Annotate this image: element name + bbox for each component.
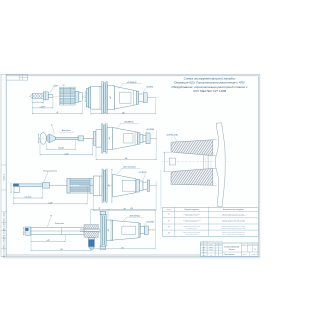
H1 taper verts [136,91,138,104]
svg-text:Т.контр.: Т.контр. [202,251,207,253]
svg-text:Т2: Т2 [168,220,170,222]
left margin cells [2,164,7,166]
H3 centerline [90,185,157,187]
tool T1 drill [30,94,32,99]
cartridge W4 [88,237,94,247]
H3 shank stub [79,184,93,186]
H3 dim [93,209,156,211]
H4 centerline [99,229,156,231]
T2 coupling [78,136,83,141]
T4 dims [31,240,65,242]
H1 body cyl1 [91,86,102,109]
H2 stud [140,134,143,142]
svg-text:1:1: 1:1 [254,249,256,251]
top-left stamp table [6,75,28,81]
svg-text:Лист: Лист [203,244,207,246]
H3 stud [139,181,143,190]
H4 taper [113,221,140,241]
inner frame [6,76,258,255]
T2 centerline [38,137,94,139]
part section lower [171,168,213,185]
svg-text:Дата: Дата [218,244,222,246]
H4 taper verts [139,223,140,237]
svg-text:Т3: Т3 [168,227,170,229]
svg-text:⌀25 (М24х3): ⌀25 (М24х3) [127,81,137,84]
svg-text:Масса: Масса [248,244,252,246]
T1 step block [75,91,79,102]
svg-text:⌀125Н9(+0,04): ⌀125Н9(+0,04) [166,134,178,137]
T1 collet sleeve [60,87,75,105]
H2 taper [113,128,138,150]
svg-text:№ поз.: № поз. [166,209,171,211]
H1 stud [139,94,144,101]
H3 body cyl1 [93,176,102,195]
workpiece section W4 [84,225,98,230]
part left dim [163,151,172,153]
svg-text:⌀80: ⌀80 [108,229,110,232]
H2 ring [93,132,96,146]
svg-text:⌀45 (М42х3): ⌀45 (М42х3) [124,121,134,124]
tool table [163,207,259,236]
part wall crescent [215,123,225,207]
svg-text:ГОСТ 10903-77 исп.2: ГОСТ 10903-77 исп.2 [186,215,199,217]
T4 left vdim [23,227,25,235]
svg-text:150: 150 [60,249,63,251]
holder H1 rings [86,89,88,107]
H3 flange vdim [111,169,113,202]
svg-text:⌀8 (М10): ⌀8 (М10) [146,87,153,89]
svg-text:⌀12 (М16): ⌀12 (М16) [146,129,154,131]
T3 centerline [13,184,95,186]
svg-text:Н.контр.: Н.контр. [202,255,207,257]
tool T4 slot bar [25,227,31,235]
svg-text:Листов 1: Листов 1 [250,254,257,256]
H2 flange [102,124,103,153]
svg-text:13598-85, патрон 6222-0077 ГОС: 13598-85, патрон 6222-0077 ГОСТ 25827 [221,215,246,217]
part centerline [162,161,228,163]
svg-text:⌀12 (М16): ⌀12 (М16) [139,172,147,174]
svg-text:Т15К6 ГОСТ 18890-73: Т15К6 ГОСТ 18890-73 [185,234,198,236]
H3 flange [102,169,103,202]
T1 dims [32,102,43,104]
T2 shank [56,137,78,139]
H2 taper verts [138,133,141,144]
H4 flange [101,215,103,246]
part edge stubs [213,139,217,141]
T1 right vdim [84,91,86,102]
T4 centerline [23,231,101,233]
svg-text:Резец канав.: Резец канав. [55,223,65,225]
T2 dims [47,148,76,150]
svg-text:Т2: Т2 [51,125,53,127]
H1 taper [114,86,136,109]
R4 top dims [90,208,108,210]
svg-text:Масшт.: Масшт. [253,244,258,246]
svg-text:Т1: Т1 [168,214,170,216]
tool T2 countersink bulb [47,134,56,143]
svg-text:372: 372 [121,247,124,249]
sheet shadow [3,257,261,259]
T3 dims [13,197,42,199]
T3 head block [14,186,19,192]
part section upper [171,140,213,156]
T3 left vdim [10,183,12,193]
H1 centerline [84,97,159,99]
H4 stud [140,227,144,234]
H1 dim [91,113,156,115]
svg-text:ЧПУ MELTEC WT 130B: ЧПУ MELTEC WT 130B [193,89,226,93]
H3 taper [113,174,136,197]
H2 dim [96,159,156,161]
H1 flange [102,82,103,114]
tool T3 boring bar [13,184,18,187]
H4 cyl2 [107,220,113,241]
svg-text:72: 72 [98,208,100,210]
bore steps [203,155,205,169]
T1 centerline [29,95,86,97]
svg-text:L=125: L=125 [64,153,68,155]
svg-text:Резец расточной: Резец расточной [43,169,57,172]
svg-text:⌀45е подстроен.: ⌀45е подстроен. [123,166,137,169]
H2 centerline [92,137,157,139]
title block [201,243,259,256]
svg-text:⌀12 (М16): ⌀12 (М16) [146,222,154,224]
svg-text:Иванов: Иванов [209,246,213,248]
svg-text:310: 310 [130,208,133,210]
H4 flange vdim [110,220,112,241]
svg-text:385: 385 [123,209,126,211]
detail ellipse T2 [40,133,46,145]
svg-text:Сверло спиральное ⌀25 ВК8: Сверло спиральное ⌀25 ВК8 [183,213,200,215]
title block stubs [203,241,205,243]
svg-text:Петров: Петров [209,249,213,251]
H1 body cyl2 [107,86,114,110]
T1 shank rings [43,92,48,100]
svg-text:⌀25Н7: ⌀25Н7 [53,85,58,87]
T3 collet sleeve [67,179,94,193]
R4 bottom dim [90,248,155,250]
datum square [169,158,175,165]
drawing sheet [1,74,260,256]
svg-text:l=70: l=70 [47,240,50,242]
svg-text:21222-85, втулка 6100-0231 ГОС: 21222-85, втулка 6100-0231 ГОСТ 13598 [221,227,245,229]
svg-text:Лист 1: Лист 1 [242,254,247,256]
H2 body cyl2 [107,128,113,150]
svg-text:12: 12 [62,85,64,87]
H2 body cyl1 [96,130,102,147]
svg-text:Адап Греч 1: Адап Греч 1 [61,129,71,132]
H3 taper verts [136,179,139,192]
